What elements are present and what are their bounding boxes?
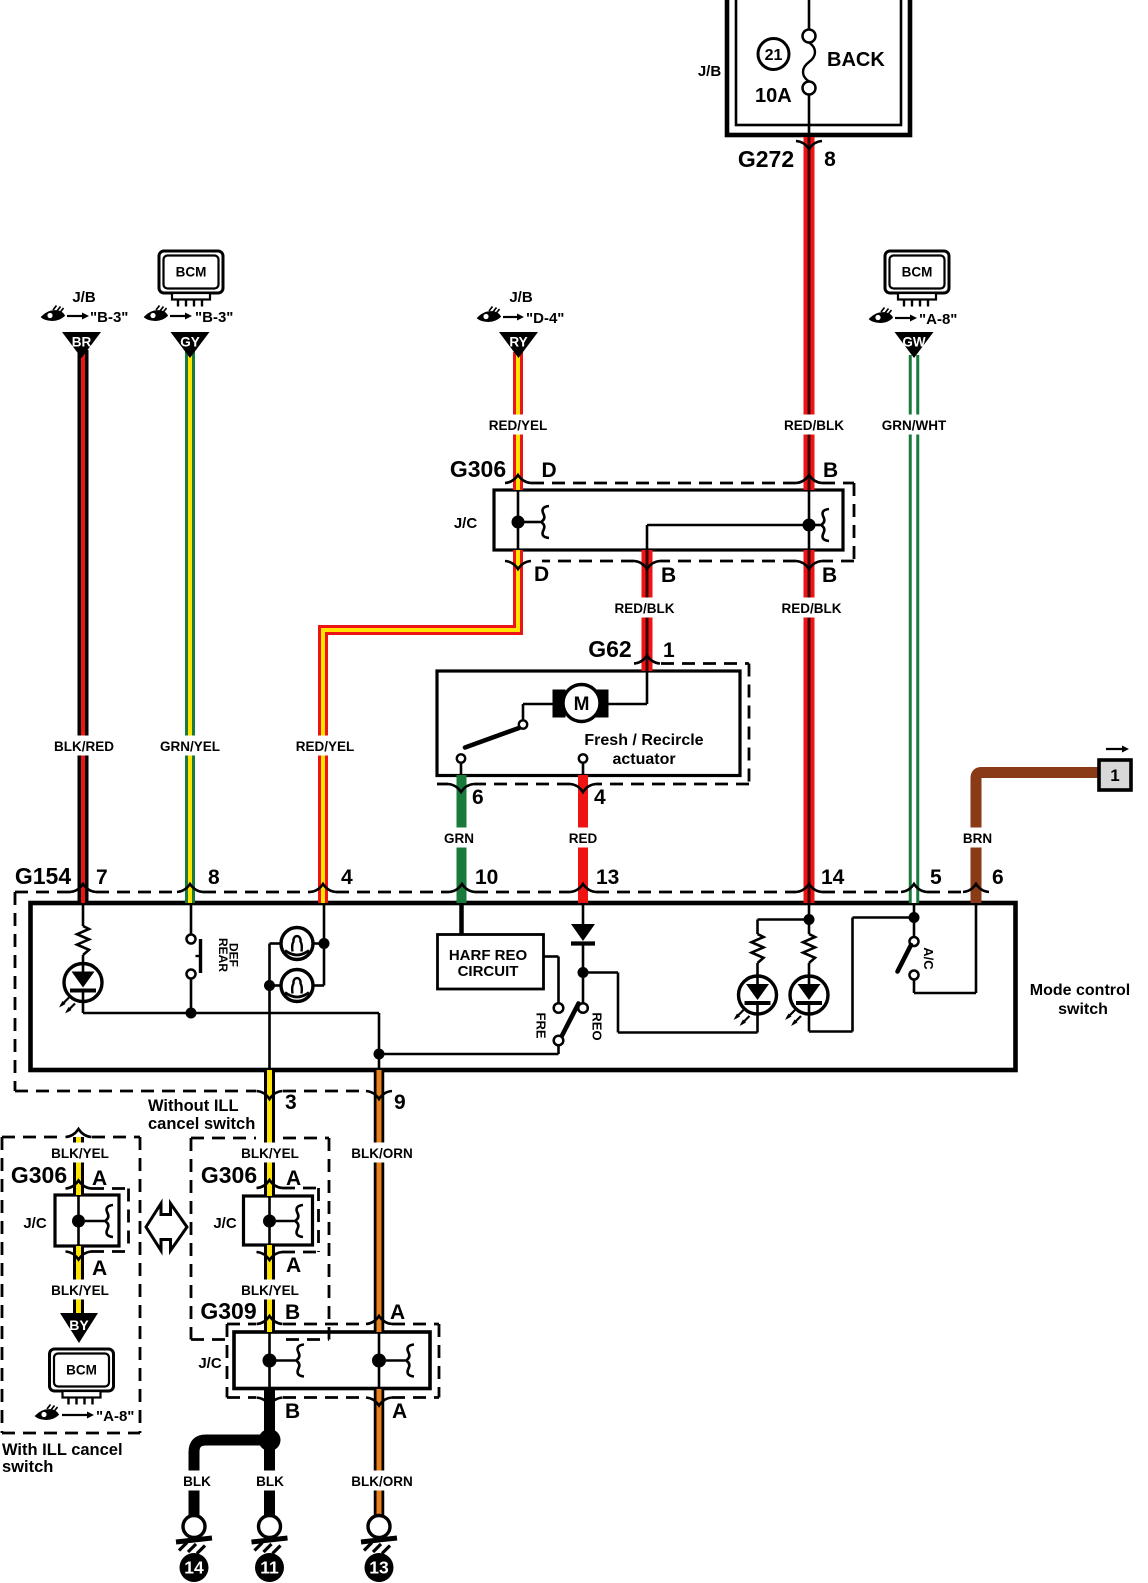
svg-text:A: A: [286, 1254, 301, 1277]
svg-text:BACK: BACK: [827, 49, 885, 71]
svg-text:J/C: J/C: [198, 1355, 222, 1372]
svg-text:GRN/YEL: GRN/YEL: [160, 739, 220, 754]
svg-text:BR: BR: [72, 335, 92, 350]
svg-text:14: 14: [821, 866, 845, 889]
svg-text:BCM: BCM: [66, 1363, 97, 1378]
svg-text:RED: RED: [569, 831, 598, 846]
svg-text:BLK/YEL: BLK/YEL: [51, 1146, 109, 1161]
svg-text:G154: G154: [15, 863, 71, 889]
svg-text:1: 1: [1110, 766, 1119, 785]
svg-text:BLK: BLK: [183, 1474, 211, 1489]
svg-text:Without ILL: Without ILL: [148, 1097, 239, 1115]
svg-text:RED/BLK: RED/BLK: [615, 601, 675, 616]
svg-text:BLK: BLK: [256, 1474, 284, 1489]
svg-text:DEF: DEF: [227, 943, 241, 967]
svg-text:RED/YEL: RED/YEL: [489, 418, 548, 433]
svg-text:G306: G306: [11, 1162, 67, 1188]
svg-text:11: 11: [260, 1558, 279, 1578]
svg-text:BCM: BCM: [176, 265, 207, 280]
svg-text:actuator: actuator: [612, 751, 675, 768]
svg-text:switch: switch: [1058, 1001, 1108, 1018]
svg-text:BY: BY: [69, 1317, 89, 1333]
svg-text:HARF REO: HARF REO: [449, 947, 528, 964]
svg-text:10: 10: [475, 866, 498, 889]
svg-text:8: 8: [208, 866, 220, 889]
svg-text:cancel switch: cancel switch: [148, 1115, 255, 1133]
svg-text:"A-8": "A-8": [96, 1408, 134, 1425]
svg-text:J/B: J/B: [72, 289, 96, 306]
svg-text:Fresh / Recircle: Fresh / Recircle: [584, 732, 703, 749]
svg-text:BLK/YEL: BLK/YEL: [241, 1146, 299, 1161]
svg-text:RY: RY: [509, 335, 527, 350]
svg-text:5: 5: [930, 866, 942, 889]
svg-text:BLK/ORN: BLK/ORN: [351, 1474, 413, 1489]
svg-text:J/B: J/B: [509, 289, 533, 306]
svg-text:FRE: FRE: [534, 1013, 549, 1039]
svg-text:B: B: [823, 459, 838, 482]
svg-text:BLK/YEL: BLK/YEL: [51, 1283, 109, 1298]
svg-text:BLK/YEL: BLK/YEL: [241, 1283, 299, 1298]
svg-text:6: 6: [992, 866, 1004, 889]
svg-text:B: B: [661, 564, 676, 587]
svg-text:13: 13: [596, 866, 619, 889]
svg-text:J/C: J/C: [23, 1215, 47, 1232]
svg-text:RED/YEL: RED/YEL: [296, 739, 355, 754]
svg-text:14: 14: [184, 1558, 204, 1578]
svg-text:3: 3: [285, 1091, 297, 1114]
svg-text:9: 9: [394, 1091, 406, 1114]
svg-text:6: 6: [472, 786, 484, 809]
svg-text:1: 1: [663, 639, 675, 662]
svg-text:RED/BLK: RED/BLK: [782, 601, 842, 616]
svg-text:GRN/WHT: GRN/WHT: [882, 418, 947, 433]
svg-text:REO: REO: [590, 1012, 605, 1040]
svg-text:A: A: [92, 1257, 107, 1280]
svg-text:"B-3": "B-3": [195, 309, 233, 326]
svg-text:8: 8: [824, 148, 836, 171]
svg-text:4: 4: [594, 786, 606, 809]
svg-text:G272: G272: [738, 146, 794, 172]
svg-text:B: B: [285, 1301, 300, 1324]
svg-text:4: 4: [341, 866, 353, 889]
svg-text:GY: GY: [180, 335, 200, 350]
svg-text:J/C: J/C: [454, 515, 478, 532]
svg-text:Mode control: Mode control: [1030, 982, 1130, 999]
svg-text:RED/BLK: RED/BLK: [784, 418, 844, 433]
svg-text:A: A: [392, 1400, 407, 1423]
svg-text:"D-4": "D-4": [526, 310, 564, 327]
svg-text:BCM: BCM: [902, 265, 933, 280]
svg-text:GW: GW: [902, 335, 926, 350]
svg-text:B: B: [285, 1400, 300, 1423]
svg-text:A: A: [92, 1167, 107, 1190]
svg-text:J/C: J/C: [213, 1215, 237, 1232]
svg-text:GRN: GRN: [444, 831, 474, 846]
svg-text:BLK/RED: BLK/RED: [54, 739, 114, 754]
svg-text:With ILL cancel: With ILL cancel: [2, 1441, 123, 1459]
svg-text:switch: switch: [2, 1458, 53, 1476]
svg-text:A: A: [390, 1301, 405, 1324]
svg-text:G306: G306: [201, 1162, 257, 1188]
svg-text:CIRCUIT: CIRCUIT: [458, 963, 519, 980]
svg-text:G62: G62: [588, 636, 631, 662]
svg-text:G306: G306: [450, 456, 506, 482]
svg-text:13: 13: [369, 1558, 389, 1578]
svg-text:J/B: J/B: [698, 63, 722, 80]
svg-text:A/C: A/C: [921, 947, 936, 970]
svg-text:"B-3": "B-3": [90, 309, 128, 326]
svg-text:BRN: BRN: [963, 831, 992, 846]
svg-text:21: 21: [765, 47, 783, 64]
svg-text:A: A: [286, 1167, 301, 1190]
svg-text:10A: 10A: [755, 85, 792, 107]
svg-text:D: D: [534, 563, 549, 586]
svg-text:D: D: [542, 459, 557, 482]
svg-text:G309: G309: [200, 1298, 256, 1324]
svg-text:M: M: [574, 694, 590, 715]
svg-text:"A-8": "A-8": [919, 311, 957, 328]
svg-text:BLK/ORN: BLK/ORN: [351, 1146, 413, 1161]
svg-text:B: B: [822, 564, 837, 587]
svg-text:7: 7: [96, 866, 108, 889]
